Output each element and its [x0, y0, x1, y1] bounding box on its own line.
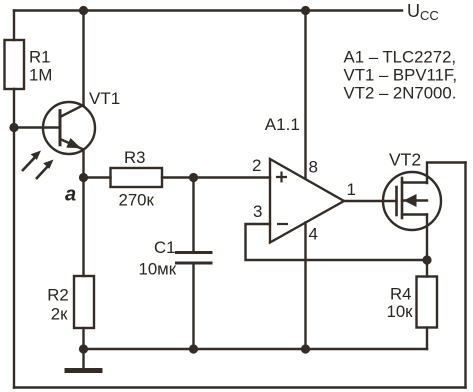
- node junction ground rail R2: [79, 344, 88, 353]
- svg-text:2: 2: [252, 156, 261, 175]
- op-amp plus sign: [276, 172, 287, 183]
- svg-text:a: a: [65, 183, 76, 205]
- node junction base: [9, 123, 18, 132]
- svg-text:10к: 10к: [387, 302, 414, 321]
- svg-text:1: 1: [347, 180, 356, 199]
- wire R4 bottom lead: [426, 328, 428, 350]
- transistor VT1 collector diagonal: [60, 105, 84, 117]
- wire Ucc top rail: [14, 9, 402, 11]
- capacitor C1: [177, 251, 212, 254]
- transistor VT2 source tap: [402, 213, 427, 215]
- wire R3 to op-amp input: [162, 176, 270, 178]
- wire op-amp output pin1: [344, 200, 397, 202]
- svg-text:A1 – TLC2272,: A1 – TLC2272,: [344, 48, 457, 67]
- wire right frame up to VT2 drain: [464, 163, 466, 388]
- wire R3 left lead: [84, 176, 111, 178]
- svg-text:R2: R2: [47, 286, 68, 305]
- wire op-amp pin4 down: [304, 223, 306, 350]
- transistor VT2 body tap: [402, 199, 427, 201]
- resistor R4: [417, 277, 438, 328]
- transistor VT2 circle: [383, 172, 441, 230]
- resistor R2: [74, 276, 94, 328]
- light arrow 1: [22, 157, 36, 171]
- wire R2 to ground rail: [82, 328, 84, 349]
- wire ground rail: [84, 348, 428, 350]
- node junction top collector: [79, 6, 88, 15]
- node junction feedback/R4: [422, 255, 431, 264]
- svg-text:270к: 270к: [119, 190, 155, 209]
- svg-text:R1: R1: [29, 47, 50, 66]
- svg-text:VT1: VT1: [89, 89, 120, 108]
- svg-text:UCC: UCC: [407, 1, 439, 23]
- wire VT1 base: [14, 126, 59, 128]
- transistor VT1 circle: [43, 102, 95, 154]
- transistor VT2 gate bar: [395, 187, 398, 215]
- transistor VT1 base bar: [59, 111, 62, 145]
- node junction top pin8: [301, 6, 310, 15]
- op-amp minus sign: [277, 223, 288, 225]
- svg-text:8: 8: [309, 158, 318, 177]
- svg-text:VT2 – 2N7000.: VT2 – 2N7000.: [344, 84, 457, 103]
- svg-text:4: 4: [309, 225, 318, 244]
- resistor R1: [5, 40, 25, 89]
- wire VT1 emitter down: [82, 150, 84, 277]
- node junction ground rail pin4: [301, 344, 310, 353]
- wire feedback pin3: [246, 224, 428, 260]
- transistor VT2 channel bar: [401, 178, 404, 218]
- ground: [82, 349, 84, 368]
- svg-text:10мк: 10мк: [139, 260, 177, 279]
- svg-text:2к: 2к: [51, 305, 68, 324]
- node junction R3/C1: [189, 173, 198, 182]
- svg-text:C1: C1: [154, 238, 175, 257]
- svg-text:R3: R3: [124, 148, 145, 167]
- wire C1 branch: [192, 178, 194, 253]
- node junction ground rail C1: [189, 344, 198, 353]
- wire op-amp pin8 supply: [304, 11, 306, 179]
- wire VT1 collector up: [82, 11, 84, 106]
- wire VT2 source down to R4: [426, 215, 428, 277]
- svg-text:VT1 – BPV11F,: VT1 – BPV11F,: [344, 66, 458, 85]
- wire bottom frame: [14, 386, 466, 388]
- svg-text:3: 3: [253, 202, 262, 221]
- svg-text:1M: 1M: [29, 66, 52, 85]
- resistor R3: [111, 168, 163, 187]
- transistor VT1 emitter arrow: [66, 138, 81, 148]
- transistor VT1 emitter diagonal: [60, 139, 84, 150]
- light arrow 2: [36, 166, 48, 179]
- op-amp U1 triangle A1.1: [270, 159, 344, 243]
- transistor VT2 drain tap: [402, 181, 427, 183]
- node a junction emitter/R3: [79, 173, 88, 182]
- svg-text:A1.1: A1.1: [265, 115, 300, 134]
- transistor VT2 body arrow: [404, 194, 417, 207]
- wire drain link: [427, 163, 466, 184]
- svg-text:VT2: VT2: [389, 150, 421, 170]
- wire left frame (R1 branch down to bottom): [13, 11, 15, 41]
- svg-text:R4: R4: [390, 284, 411, 303]
